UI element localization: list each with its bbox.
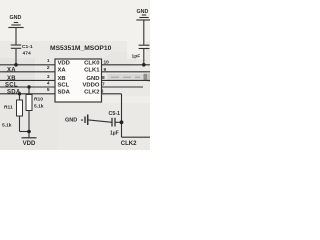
svg-text:GND: GND (137, 9, 149, 15)
svg-text:XA: XA (58, 67, 67, 73)
svg-text:3: 3 (47, 74, 50, 80)
svg-text:6: 6 (101, 88, 104, 94)
svg-text:2: 2 (47, 65, 50, 71)
svg-text:CLK0: CLK0 (84, 60, 100, 66)
svg-text:XA: XA (7, 67, 16, 73)
svg-text:CLK2: CLK2 (121, 141, 137, 147)
svg-text:XB: XB (7, 76, 16, 82)
svg-text:CLK2: CLK2 (84, 89, 100, 95)
svg-text:5.1k: 5.1k (2, 123, 12, 129)
svg-text:XB: XB (58, 76, 66, 82)
svg-text:1: 1 (47, 58, 50, 64)
svg-text:C5-1: C5-1 (109, 111, 121, 117)
svg-text:5.1k: 5.1k (34, 104, 44, 110)
svg-text:VDDO: VDDO (82, 83, 99, 89)
svg-text:7: 7 (102, 82, 105, 88)
svg-text:C1-1: C1-1 (22, 44, 33, 50)
svg-text:GND: GND (65, 118, 77, 124)
svg-text:CLK1: CLK1 (84, 67, 100, 73)
svg-text:R11: R11 (4, 105, 13, 111)
svg-text:9: 9 (104, 67, 107, 73)
svg-text:8: 8 (102, 75, 105, 81)
svg-text:MS5351M_MSOP10: MS5351M_MSOP10 (50, 45, 112, 52)
svg-text:1µF: 1µF (110, 131, 119, 137)
svg-text:GND: GND (10, 15, 22, 21)
svg-text:5: 5 (47, 87, 50, 93)
svg-text:1pF: 1pF (132, 54, 141, 60)
svg-text:GND: GND (86, 76, 99, 82)
svg-text:4: 4 (47, 80, 50, 86)
svg-text:VDD: VDD (58, 60, 70, 66)
svg-text:10: 10 (104, 59, 110, 65)
svg-text:R10: R10 (34, 96, 43, 102)
svg-text:SDA: SDA (7, 89, 21, 95)
svg-text:474: 474 (23, 51, 31, 57)
svg-text:SCL: SCL (5, 83, 18, 89)
svg-text:VDD: VDD (23, 141, 36, 147)
svg-text:SDA: SDA (58, 89, 71, 95)
svg-text:SCL: SCL (58, 83, 70, 89)
